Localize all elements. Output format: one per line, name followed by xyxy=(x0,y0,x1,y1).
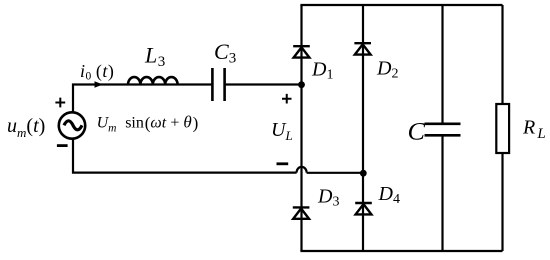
svg-text:um(t): um(t) xyxy=(7,115,45,140)
svg-text:): ) xyxy=(193,113,199,132)
svg-text:D4: D4 xyxy=(378,183,400,207)
svg-text:L3: L3 xyxy=(144,43,165,70)
svg-text:D1: D1 xyxy=(311,59,333,83)
svg-text:D3: D3 xyxy=(317,186,339,210)
svg-text:ωt: ωt xyxy=(150,115,166,132)
svg-text:+: + xyxy=(170,115,179,132)
svg-text:Um: Um xyxy=(97,115,117,135)
svg-text:sin: sin xyxy=(125,115,144,132)
svg-text:C3: C3 xyxy=(214,39,236,66)
svg-text:θ: θ xyxy=(183,113,191,132)
svg-text:C: C xyxy=(408,119,426,146)
svg-text:D2: D2 xyxy=(376,58,398,82)
svg-text:i0 (t): i0 (t) xyxy=(80,61,114,83)
svg-text:UL: UL xyxy=(271,119,293,143)
svg-text:RL: RL xyxy=(522,117,546,143)
